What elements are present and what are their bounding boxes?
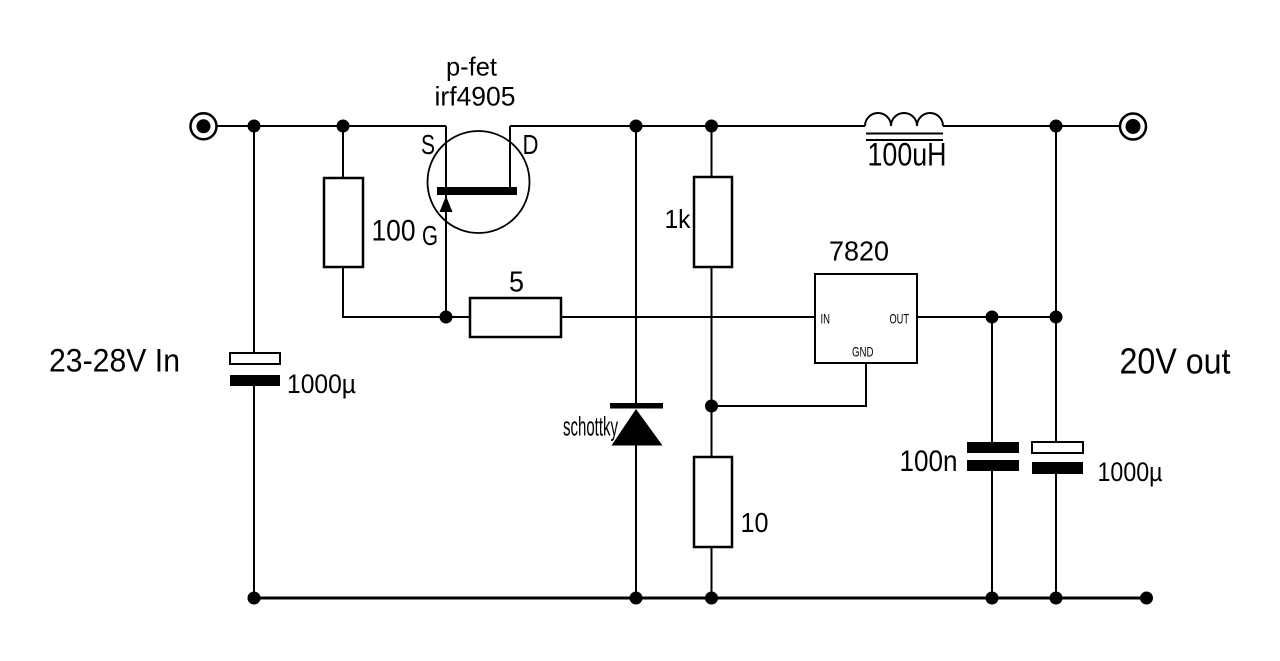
regulator U1 7820 box (815, 274, 917, 363)
input cap 1000u bottom plate (230, 375, 280, 386)
junction dot bottom-10 (705, 592, 718, 605)
transistor Q1 circle (428, 131, 530, 233)
wire top rail right (inductor to output terminal) (943, 125, 1120, 127)
junction dot rail-1k (705, 120, 718, 133)
schottky diode triangle (612, 409, 663, 446)
junction dot gate node (440, 311, 453, 324)
junction dot bottom-end (1140, 592, 1153, 605)
junction dot bottom-capin (248, 592, 261, 605)
svg-text:10: 10 (741, 507, 769, 538)
transistor channel bar (437, 187, 517, 195)
svg-text:100n: 100n (900, 445, 958, 478)
input cap 1000u top plate (hollow) (230, 353, 280, 364)
cap 100n bottom plate (967, 460, 1019, 471)
svg-text:100uH: 100uH (868, 137, 947, 173)
inductor L1 100uH arcs (865, 113, 943, 126)
svg-text:irf4905: irf4905 (435, 82, 516, 112)
wire top rail mid (D to inductor) (510, 125, 865, 127)
junction dot bottom-capout (1050, 592, 1063, 605)
wire gate node to 5-resistor (446, 316, 470, 318)
junction dot rail-outbranch (1050, 120, 1063, 133)
svg-text:1000µ: 1000µ (287, 369, 356, 399)
junction dot gnd-10 (705, 400, 718, 413)
resistor 5 (470, 298, 561, 337)
wire input cap branch lower (253, 386, 255, 598)
schottky diode cathode bar (610, 403, 663, 409)
wire 100-resistor bottom to gate node (343, 267, 446, 317)
wire 100n branch lower (991, 471, 993, 598)
wire schottky lower (635, 445, 637, 598)
wire output branch lower (1055, 474, 1057, 598)
svg-text:5: 5 (509, 267, 524, 299)
wire output branch upper (1055, 126, 1057, 442)
svg-text:OUT: OUT (890, 310, 910, 326)
wire 10 bottom (711, 547, 713, 598)
wire transistor drain (509, 126, 511, 188)
svg-text:1000µ: 1000µ (1098, 457, 1163, 487)
output cap 1000u top plate (1032, 442, 1083, 453)
junction dot bottom-schottky (630, 592, 643, 605)
svg-text:23-28V In: 23-28V In (49, 343, 180, 379)
cap 100n top plate (967, 442, 1019, 453)
svg-text:p-fet: p-fet (446, 52, 498, 82)
svg-text:schottky: schottky (563, 412, 618, 442)
output cap 1000u bottom plate (1032, 462, 1083, 474)
input terminal (191, 113, 217, 139)
wire 5-resistor to 7820 IN (561, 316, 815, 318)
transistor gate arrow (440, 196, 453, 212)
wire 7820 GND (712, 363, 867, 406)
junction dot rail-100R (337, 120, 350, 133)
svg-text:7820: 7820 (829, 236, 889, 267)
wire 7820 OUT (917, 316, 1056, 318)
junction dot out-100n (986, 311, 999, 324)
wire gate vertical (445, 193, 447, 317)
svg-text:IN: IN (821, 310, 831, 326)
wire transistor source (445, 126, 447, 188)
wire input cap branch upper (253, 126, 255, 353)
resistor 1k (694, 177, 732, 267)
svg-text:20V out: 20V out (1120, 341, 1231, 382)
wire 100n branch upper (991, 317, 993, 442)
wire bottom rail (254, 597, 1147, 600)
junction dot rail-schottky (630, 120, 643, 133)
wire 1k bottom to 10 top (711, 267, 713, 457)
resistor 10 (694, 457, 732, 547)
wire 100-resistor top (342, 126, 344, 178)
junction dot out-vertical (1050, 311, 1063, 324)
svg-text:1k: 1k (665, 204, 692, 234)
svg-text:G: G (422, 220, 438, 251)
output terminal (1120, 114, 1146, 140)
wire schottky upper (635, 126, 637, 403)
svg-text:GND: GND (852, 344, 874, 360)
svg-text:D: D (523, 129, 539, 160)
resistor 100 (324, 178, 363, 267)
wire top rail left (terminal to S) (218, 125, 447, 127)
junction dot rail-cap-in (248, 120, 261, 133)
svg-text:S: S (421, 129, 435, 160)
svg-text:100: 100 (372, 215, 416, 248)
junction dot bottom-100n (986, 592, 999, 605)
inductor core lines (866, 133, 943, 135)
wire 1k top (711, 126, 713, 177)
